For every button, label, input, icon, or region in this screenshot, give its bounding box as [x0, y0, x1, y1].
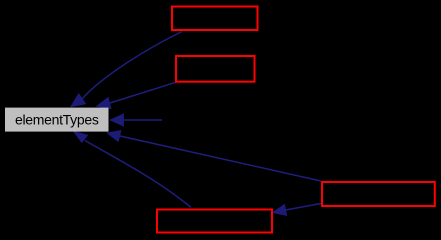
svg-text:elementTypes: elementTypes	[15, 112, 99, 128]
